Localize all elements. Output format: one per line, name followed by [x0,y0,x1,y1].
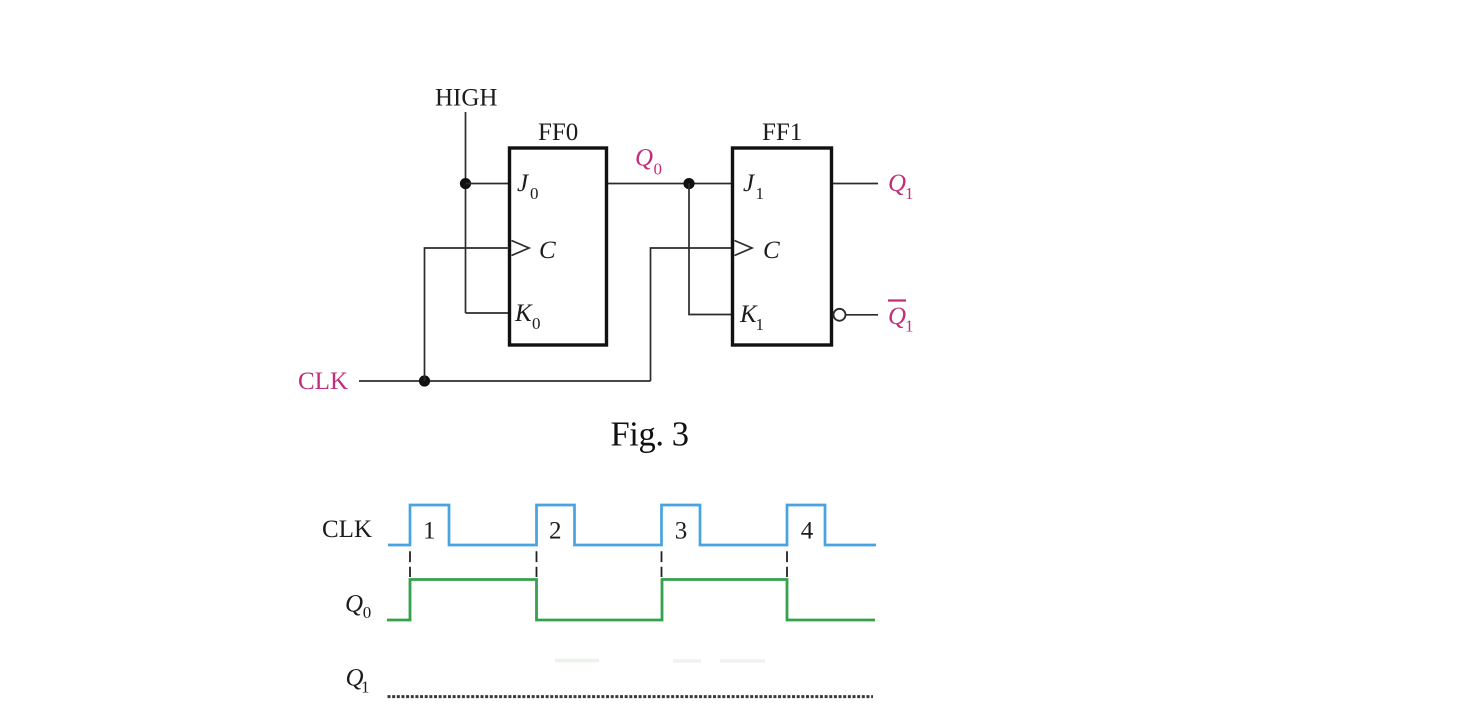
svg-text:Q: Q [635,145,653,172]
dashed edge marker 2 [536,551,538,577]
dashed edge marker 4 [786,551,788,577]
svg-text:0: 0 [530,184,539,203]
wire from Q0 junction down to K1 [689,184,732,315]
svg-text:0: 0 [363,603,372,622]
svg-text:HIGH: HIGH [435,85,498,112]
inversion bubble on Q1-bar output [834,309,846,321]
svg-text:FF1: FF1 [762,119,802,146]
faint erased-waveform smudge b [673,659,701,663]
wire Q0 from FF0 to FF1 [608,183,732,185]
svg-text:C: C [763,237,780,264]
flip-flop FF0 box [510,148,607,345]
svg-text:4: 4 [801,518,814,545]
junction dot on CLK line [419,375,430,386]
svg-text:Fig. 3: Fig. 3 [611,416,689,454]
faint erased-waveform smudge a [555,659,599,663]
junction dot at HIGH/J0 [460,178,471,189]
clock wedge FF0 [512,241,530,256]
node Q1-bar label with overbar [888,299,906,301]
wire Q1-bar output [846,314,879,316]
svg-text:Q: Q [345,591,363,618]
dashed edge marker 3 [661,551,663,577]
wire CLK to FF1 clock input [651,248,733,381]
wire CLK horizontal [359,380,651,382]
svg-text:0: 0 [654,160,663,179]
svg-text:1: 1 [423,518,436,545]
svg-text:Q: Q [888,170,906,197]
svg-text:1: 1 [756,315,765,334]
svg-text:1: 1 [361,678,370,697]
wire HIGH vertical down to K0 row [465,112,467,313]
wire Q1 output [833,183,878,185]
timing Q0 waveform (green) [387,580,875,621]
svg-text:J: J [743,170,756,197]
svg-text:3: 3 [675,518,688,545]
svg-text:FF0: FF0 [538,119,578,146]
svg-text:CLK: CLK [298,368,348,395]
svg-text:K: K [514,300,533,327]
wire CLK to FF0 clock input [425,248,510,381]
svg-text:1: 1 [756,184,765,203]
svg-text:C: C [539,237,556,264]
dashed edge marker 1 [409,551,411,577]
svg-text:CLK: CLK [322,516,372,543]
timing CLK waveform (blue) [388,505,876,545]
svg-text:J: J [517,170,530,197]
svg-text:1: 1 [905,317,914,336]
svg-text:Q: Q [888,303,906,330]
faint erased-waveform smudge c [720,659,765,663]
wire J0 input [466,183,510,185]
clock wedge FF1 [735,241,753,256]
svg-text:2: 2 [549,518,562,545]
svg-text:1: 1 [905,184,914,203]
junction dot at Q0/J1 [683,178,694,189]
svg-text:0: 0 [532,314,541,333]
flip-flop FF1 box [733,148,832,345]
dotted Q1 baseline [388,695,874,698]
wire K0 input [466,312,510,314]
